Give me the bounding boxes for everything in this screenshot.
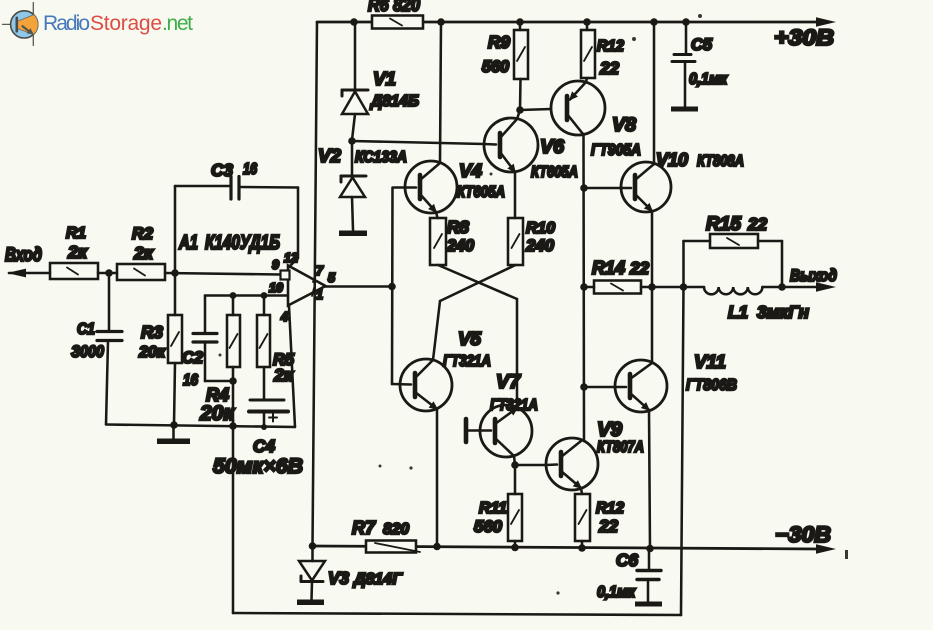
op-amp A1 xyxy=(288,266,326,306)
svg-text:20к: 20к xyxy=(199,402,235,425)
svg-text:−30В: −30В xyxy=(775,522,831,547)
svg-text:ГТ321А: ГТ321А xyxy=(490,397,538,414)
node output split xyxy=(388,283,396,291)
resistor R12 top xyxy=(586,22,589,30)
wire V4 collector to +30V xyxy=(440,22,441,163)
svg-text:КТ605А: КТ605А xyxy=(457,184,505,201)
wire op-amp pin 10 xyxy=(205,294,287,297)
svg-text:560: 560 xyxy=(482,58,509,76)
svg-text:Radio: Radio xyxy=(43,12,90,35)
node feedback/R15 xyxy=(680,283,688,291)
svg-text:С3: С3 xyxy=(211,160,233,180)
wire V10 collector to +30V xyxy=(653,22,656,164)
resistor R5 xyxy=(263,296,266,316)
svg-text:10: 10 xyxy=(269,281,283,295)
node R5 top xyxy=(261,292,268,299)
scan specks xyxy=(219,14,849,595)
wire zener node to V6 base xyxy=(352,141,484,144)
svg-text:V6: V6 xyxy=(540,136,564,158)
svg-text:ГТ905А: ГТ905А xyxy=(591,142,641,159)
resistor R9 xyxy=(519,22,522,30)
svg-text:R12: R12 xyxy=(597,38,624,55)
wire cross R10 to V5 collector xyxy=(440,265,516,301)
capacitor C2 xyxy=(204,296,207,334)
wire L1 to output arrow xyxy=(762,286,820,289)
svg-text:R8: R8 xyxy=(447,217,469,237)
svg-text:ГТ321А: ГТ321А xyxy=(443,353,491,370)
svg-text:L1: L1 xyxy=(728,303,748,322)
wire R9 node to V6 collector xyxy=(517,110,520,119)
capacitor C3 feedback xyxy=(174,186,177,273)
node R9/V6/V8 xyxy=(516,106,524,114)
wire R1-R2 xyxy=(98,272,117,275)
svg-text:Д814Г: Д814Г xyxy=(352,571,403,588)
resistor R4 xyxy=(232,296,235,316)
svg-text:С5: С5 xyxy=(691,36,713,54)
transistor V8 xyxy=(551,81,605,135)
wire node to V9 base xyxy=(515,464,546,467)
svg-text:820: 820 xyxy=(383,521,409,538)
svg-text:ГТ806В: ГТ806В xyxy=(686,377,737,394)
transistor V5 xyxy=(400,359,452,411)
svg-text:50мк×6В: 50мк×6В xyxy=(213,454,303,478)
zener diode V2 xyxy=(351,141,354,176)
svg-text:240: 240 xyxy=(446,237,474,255)
input arrow xyxy=(7,269,26,278)
svg-text:V8: V8 xyxy=(612,114,636,136)
-30V arrow xyxy=(816,544,836,553)
transistor V4 xyxy=(405,161,457,213)
svg-text:0,1мк: 0,1мк xyxy=(597,584,636,601)
svg-text:3мкГн: 3мкГн xyxy=(757,302,809,322)
capacitor C4 electrolytic xyxy=(250,399,284,402)
svg-text:КТ605А: КТ605А xyxy=(531,164,578,181)
wire op-amp output xyxy=(326,285,393,288)
wire left rail (zener bias) xyxy=(313,22,318,546)
wire bottom ground rail (input section) xyxy=(106,425,295,428)
svg-text:2к: 2к xyxy=(133,243,154,263)
ground below V2 xyxy=(339,231,367,237)
svg-text:16: 16 xyxy=(183,372,198,389)
transistor V10 xyxy=(621,162,671,212)
capacitor C6 xyxy=(648,549,651,570)
ground below R3 xyxy=(172,425,175,439)
node R15 right xyxy=(778,283,786,291)
svg-text:7: 7 xyxy=(316,264,324,278)
svg-text:К140УД1Б: К140УД1Б xyxy=(205,232,280,254)
svg-text:V4: V4 xyxy=(459,160,483,181)
resistor R10 xyxy=(514,172,517,218)
zener diode V1 xyxy=(354,22,357,91)
svg-text:R3: R3 xyxy=(141,322,163,342)
svg-text:Выход: Выход xyxy=(790,266,837,285)
svg-text:КТ808А: КТ808А xyxy=(697,153,744,170)
wire V8 collector spine xyxy=(582,134,585,441)
svg-text:1: 1 xyxy=(316,288,323,302)
wire V4/V5 base spine xyxy=(391,188,394,385)
resistor R1 xyxy=(50,263,98,279)
resistor R8 xyxy=(436,212,438,218)
svg-text:А1: А1 xyxy=(178,232,198,254)
node C2/R4 xyxy=(229,377,237,385)
wire feedback loop frame xyxy=(232,426,235,613)
resistor R14 xyxy=(584,286,594,289)
svg-text:З000: З000 xyxy=(71,342,104,361)
transistor V7 xyxy=(480,405,532,457)
svg-text:5: 5 xyxy=(328,271,336,285)
svg-text:V1: V1 xyxy=(373,68,396,89)
node R14 left xyxy=(580,283,588,291)
svg-text:V5: V5 xyxy=(458,328,482,349)
svg-text:КТ807А: КТ807А xyxy=(597,439,644,456)
node V1/V2 junction xyxy=(348,137,356,145)
svg-text:С2: С2 xyxy=(182,349,203,367)
svg-text:R2: R2 xyxy=(132,225,153,243)
wire V7 collector drop xyxy=(516,299,519,408)
svg-text:V7: V7 xyxy=(496,371,521,393)
svg-text:V3: V3 xyxy=(328,568,349,588)
+30V arrow xyxy=(816,17,836,26)
wire +30V top rail xyxy=(317,21,820,24)
svg-text:R10: R10 xyxy=(526,220,555,237)
wire V11 collector up xyxy=(651,287,654,363)
wire V11 emitter down xyxy=(649,410,650,549)
svg-text:R7: R7 xyxy=(352,518,376,538)
resistor R11 xyxy=(514,465,517,494)
capacitor C1 xyxy=(108,273,111,331)
svg-text:Storage: Storage xyxy=(90,12,162,35)
svg-text:560: 560 xyxy=(474,517,503,536)
svg-text:C1: C1 xyxy=(77,321,95,338)
node R3/rail xyxy=(170,421,178,429)
resistor R12 bottom xyxy=(581,488,582,494)
node R4/rail/feedback xyxy=(229,422,237,430)
resistor R15 xyxy=(682,241,685,287)
svg-text:R9: R9 xyxy=(488,32,510,52)
svg-text:Вход: Вход xyxy=(5,245,42,266)
svg-text:Д814Б: Д814Б xyxy=(369,93,419,110)
svg-text:V2: V2 xyxy=(318,145,342,166)
node output/V10/V11 xyxy=(648,283,656,291)
svg-text:R1: R1 xyxy=(66,225,86,242)
transistor V11 xyxy=(615,360,667,412)
svg-text:V10: V10 xyxy=(656,150,688,170)
wire input xyxy=(9,272,50,275)
wire V7 emitter to node xyxy=(514,456,515,465)
svg-text:0,1мк: 0,1мк xyxy=(689,71,728,88)
wire V10 emitter down xyxy=(651,211,654,287)
svg-text:С4: С4 xyxy=(253,436,275,456)
inductor L1 xyxy=(704,287,762,294)
svg-text:12: 12 xyxy=(284,251,298,265)
node V11 base tap xyxy=(580,383,588,391)
svg-text:.net: .net xyxy=(162,12,193,35)
node V7/V9/R11 xyxy=(511,461,519,469)
wire R2 to op-amp pin 9 xyxy=(165,273,280,275)
resistor R3 xyxy=(174,273,177,315)
svg-text:R12: R12 xyxy=(596,500,624,517)
svg-text:R15: R15 xyxy=(706,214,741,235)
transistor V9 xyxy=(546,438,598,490)
resistor R7 xyxy=(366,541,416,553)
svg-text:22: 22 xyxy=(747,215,767,234)
resistor R2 xyxy=(117,264,165,280)
svg-text:16: 16 xyxy=(243,161,257,178)
node C1 tap xyxy=(105,269,113,277)
svg-text:V11: V11 xyxy=(694,351,726,372)
svg-text:2к: 2к xyxy=(67,242,88,262)
svg-text:20к: 20к xyxy=(138,343,166,361)
svg-text:V9: V9 xyxy=(597,419,623,441)
svg-text:КС133А: КС133А xyxy=(355,149,407,166)
node rail junctions xyxy=(309,542,654,552)
transistor V6 xyxy=(484,118,538,172)
svg-text:22: 22 xyxy=(629,259,649,278)
node V10 base tap xyxy=(580,184,588,192)
wire V5 collector drop xyxy=(433,301,440,360)
svg-text:С6: С6 xyxy=(616,550,638,570)
node R3/C3 tap xyxy=(171,269,179,277)
svg-text:240: 240 xyxy=(525,236,555,255)
svg-text:2к: 2к xyxy=(273,365,294,385)
output arrow xyxy=(816,282,836,291)
wire -30V bottom rail xyxy=(313,546,821,549)
zener diode V3 xyxy=(311,546,314,561)
svg-text:R11: R11 xyxy=(479,500,507,517)
wire R9 node to V8 base xyxy=(520,109,551,110)
ground below V3 xyxy=(297,600,324,606)
logo RadioStorage.net xyxy=(3,3,194,46)
svg-text:+30В: +30В xyxy=(774,25,834,50)
svg-text:R6 820: R6 820 xyxy=(368,0,420,15)
node R4 top xyxy=(230,292,237,299)
svg-text:R14: R14 xyxy=(592,258,625,278)
svg-text:22: 22 xyxy=(599,59,619,78)
resistor R6 xyxy=(372,16,423,29)
wire op-amp pin 4 xyxy=(289,306,295,427)
node top rail junctions xyxy=(350,18,690,26)
svg-text:4: 4 xyxy=(280,310,288,324)
svg-text:22: 22 xyxy=(598,517,618,536)
wire cross R8 to V7 collector xyxy=(438,265,517,299)
svg-text:9: 9 xyxy=(272,258,279,272)
capacitor C5 xyxy=(685,22,688,54)
wire V5 emitter down xyxy=(436,409,439,547)
